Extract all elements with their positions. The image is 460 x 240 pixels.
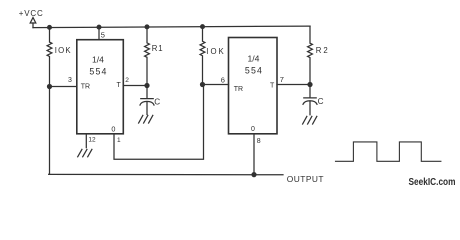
- svg-text:SeekIC.com: SeekIC.com: [409, 177, 456, 188]
- IC U2 1/4 554 timer: [229, 38, 278, 134]
- node junction rail-R1: [145, 25, 149, 29]
- svg-text:554: 554: [89, 66, 107, 76]
- svg-text:1/4: 1/4: [248, 54, 260, 64]
- ground below C1: [139, 115, 153, 123]
- node junction output: [252, 173, 256, 177]
- svg-text:3: 3: [68, 77, 72, 84]
- node junction rail-pin5: [97, 25, 101, 29]
- wire pin7: [277, 84, 310, 86]
- node junction pin6: [201, 83, 205, 87]
- resistor 10K left: [47, 27, 52, 86]
- svg-text:0: 0: [251, 126, 255, 133]
- wire top supply rail: [33, 26, 310, 28]
- svg-text:IOK: IOK: [55, 46, 72, 55]
- svg-text:5: 5: [101, 30, 105, 39]
- resistor R2: [308, 26, 313, 84]
- svg-text:6: 6: [221, 76, 225, 85]
- node OUTPUT label: [287, 174, 324, 184]
- ground below C2: [303, 116, 317, 124]
- svg-text:IOK: IOK: [206, 47, 225, 56]
- resistor R1: [145, 27, 150, 86]
- svg-text:OUTPUT: OUTPUT: [287, 174, 324, 184]
- node junction pin3: [48, 85, 52, 89]
- wire pin6: [203, 84, 229, 86]
- node junction rail / 10K left: [48, 26, 52, 30]
- power symbol +VCC arrow: [30, 18, 36, 24]
- wire left feedback vertical: [48, 87, 51, 175]
- wire pin5 stub: [98, 27, 100, 40]
- node +VCC label: [19, 9, 44, 18]
- resistor 10K right: [200, 27, 205, 85]
- svg-text:TR: TR: [234, 86, 243, 93]
- wire pin12 stub: [85, 134, 87, 148]
- wire output line: [49, 173, 283, 175]
- svg-text:1/4: 1/4: [92, 54, 104, 64]
- svg-text:8: 8: [257, 138, 261, 145]
- capacitor C2: [303, 85, 317, 115]
- svg-text:R2: R2: [316, 46, 330, 55]
- IC U1 1/4 554 timer: [77, 40, 124, 134]
- svg-text:12: 12: [88, 137, 96, 144]
- svg-text:R1: R1: [152, 44, 164, 53]
- wire pin8 output stub: [253, 134, 255, 175]
- capacitor C1: [140, 86, 154, 115]
- node junction pin2-R1-C1: [145, 84, 149, 88]
- wire VCC stub: [32, 23, 34, 28]
- node junction rail / 10K right: [201, 25, 205, 29]
- svg-text:T: T: [117, 82, 122, 89]
- wire pin1 output to pin6 feedback: [114, 85, 204, 160]
- svg-text:554: 554: [245, 66, 263, 76]
- svg-text:1: 1: [117, 137, 121, 144]
- wire pin3: [50, 86, 77, 88]
- node junction pin7-R2-C2: [308, 83, 312, 87]
- svg-text:2: 2: [125, 77, 129, 84]
- waveform square wave: [336, 142, 441, 161]
- svg-text:C: C: [154, 98, 160, 107]
- svg-text:C: C: [318, 97, 324, 106]
- svg-text:T: T: [270, 83, 275, 90]
- watermark SeekIC.com: [409, 177, 456, 188]
- svg-text:+VCC: +VCC: [19, 9, 44, 18]
- svg-text:7: 7: [280, 75, 284, 84]
- svg-text:TR: TR: [81, 83, 90, 90]
- svg-text:0: 0: [111, 124, 115, 133]
- ground below pin12: [78, 149, 92, 156]
- wire pin2: [123, 85, 147, 87]
